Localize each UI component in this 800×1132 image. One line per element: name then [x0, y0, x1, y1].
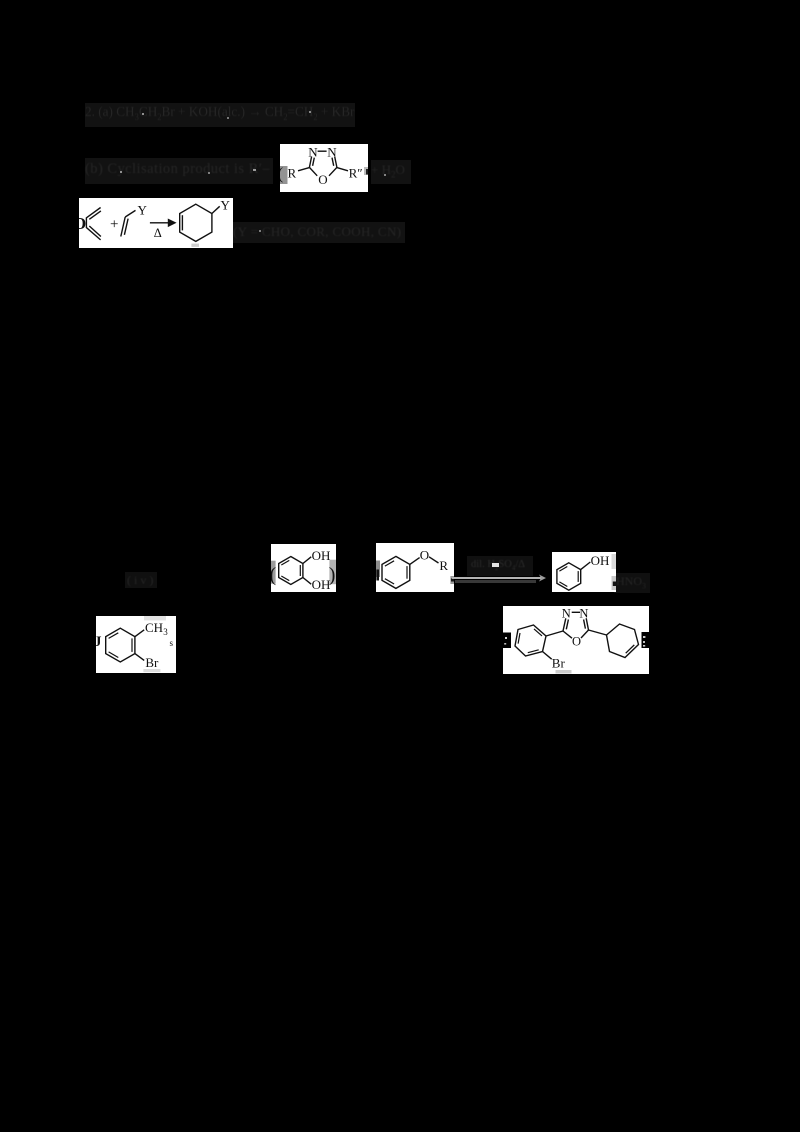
- bond to OH: [581, 562, 591, 570]
- OH bonds: [303, 557, 311, 564]
- svg-text:+: +: [110, 217, 118, 233]
- svg-text:R: R: [439, 558, 448, 573]
- O-R bond: [429, 557, 439, 563]
- reaction arrow (middle row): [452, 577, 543, 580]
- central oxadiazole ring: [563, 612, 607, 638]
- R-C2 bond: [298, 168, 309, 171]
- C5-R'' bond: [337, 168, 348, 171]
- svg-text:O: O: [572, 634, 581, 648]
- svg-text:OH: OH: [591, 553, 610, 568]
- bright speck above arrow: [492, 563, 499, 567]
- svg-text:R: R: [288, 165, 297, 180]
- svg-text:OH: OH: [312, 577, 331, 592]
- cyclohexenyl ring: [607, 624, 639, 658]
- bond to Br: [135, 654, 144, 661]
- bromotoluene box: [96, 616, 176, 673]
- phenol box: [552, 552, 616, 592]
- light gray streaks: [144, 616, 166, 620]
- gray edge artifacts right: [612, 554, 617, 569]
- bond to CH3: [135, 630, 144, 637]
- bond to Br: [543, 652, 552, 660]
- text line 1: [85, 105, 354, 122]
- svg-text:Y: Y: [221, 198, 231, 212]
- svg-text:CH: CH: [145, 620, 163, 635]
- svg-text:Y: Y: [138, 203, 148, 218]
- gray smudge below Br: [556, 670, 572, 674]
- faint halo underlays for text rows: [85, 103, 355, 127]
- C2=N1 double bond: [309, 157, 311, 168]
- gray edge artifact left: [280, 166, 288, 184]
- svg-text:O: O: [79, 214, 86, 233]
- C5=N2 double bond: [335, 157, 337, 168]
- svg-text:N: N: [562, 607, 571, 621]
- label (iv): [127, 573, 156, 588]
- product oxadiazole box: [503, 606, 649, 674]
- gray edge artifacts: [376, 561, 380, 578]
- svg-text:N: N: [308, 145, 318, 160]
- svg-text:Br: Br: [145, 655, 159, 670]
- phenyl ether box: [376, 543, 454, 592]
- N-N bond: [318, 150, 327, 152]
- svg-text:J: J: [96, 634, 102, 650]
- dienophile with Y: [121, 210, 136, 236]
- bond to O: [410, 558, 420, 565]
- svg-text:O: O: [318, 172, 327, 187]
- gray smudge bottom: [191, 244, 199, 247]
- text line 3 (right of Diels-Alder box): [233, 224, 401, 240]
- benzene ring: [557, 562, 590, 590]
- diene: [86, 208, 101, 240]
- gray edge artifact right: [364, 167, 368, 175]
- svg-text:R″: R″: [349, 165, 363, 180]
- C2-O bond: [309, 167, 317, 175]
- reagent text above arrow: [471, 559, 525, 572]
- bright antialias specks in text rows: [142, 113, 144, 115]
- svg-text:3: 3: [163, 627, 168, 637]
- dark edge artifact right: [642, 632, 650, 648]
- svg-text:Br: Br: [552, 655, 566, 670]
- bromophenyl ring: [515, 625, 563, 659]
- Diels-Alder box: [79, 198, 233, 248]
- gray edge artifacts: [271, 561, 276, 584]
- dark edge artifact left: [503, 633, 511, 649]
- cyclohexene product: [180, 204, 220, 241]
- benzene ring: [279, 557, 312, 585]
- text line 2 (left of oxadiazole box): [85, 161, 270, 178]
- oxadiazole box U1: [280, 144, 368, 192]
- text right of phenol box: [616, 574, 646, 590]
- C5-O bond: [329, 167, 337, 175]
- benzene ring: [382, 556, 439, 588]
- catechol box: [271, 544, 336, 592]
- reaction arrow: [150, 220, 175, 226]
- svg-text:N: N: [327, 145, 337, 160]
- svg-text:Δ: Δ: [154, 226, 162, 240]
- svg-text:(: (: [271, 564, 277, 586]
- bond to cyclohexenyl: [589, 630, 607, 635]
- svg-text:N: N: [579, 607, 588, 621]
- bond phenyl to oxadiazole C2: [546, 631, 563, 636]
- svg-text:(: (: [280, 164, 284, 183]
- svg-text:O: O: [420, 547, 429, 562]
- benzene ring: [106, 628, 145, 662]
- ring bonds: [298, 151, 348, 176]
- svg-text:OH: OH: [312, 548, 331, 563]
- text line 2 (right of oxadiazole box): [371, 162, 405, 180]
- svg-text:s: s: [170, 638, 174, 648]
